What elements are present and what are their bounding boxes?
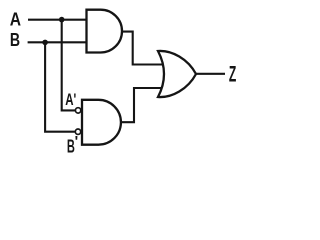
wire from B junction down to lower gate bottom input [45, 42, 75, 131]
OR gate U3 [158, 51, 196, 97]
wire A input [28, 19, 87, 21]
inverter bubble bottom input of U2 [75, 129, 80, 134]
junction dot on A wire [59, 17, 65, 23]
inverter bubble top input of U2 [75, 108, 80, 113]
wire from A junction down to lower gate top input [62, 20, 76, 111]
svg-text:B: B [10, 29, 20, 50]
wire U2 output to OR bottom input [121, 88, 163, 122]
svg-text:A': A' [65, 91, 76, 109]
AND gate U2 (lower, with inverted inputs) [82, 100, 121, 145]
wire B input [28, 41, 87, 43]
svg-text:Z: Z [229, 61, 236, 86]
AND gate U1 [87, 10, 122, 53]
junction dot on B wire [42, 40, 48, 46]
svg-text:': ' [75, 133, 79, 150]
wire U1 output to OR top input [122, 32, 163, 65]
svg-text:A: A [10, 8, 21, 29]
wire OR output [196, 73, 225, 75]
